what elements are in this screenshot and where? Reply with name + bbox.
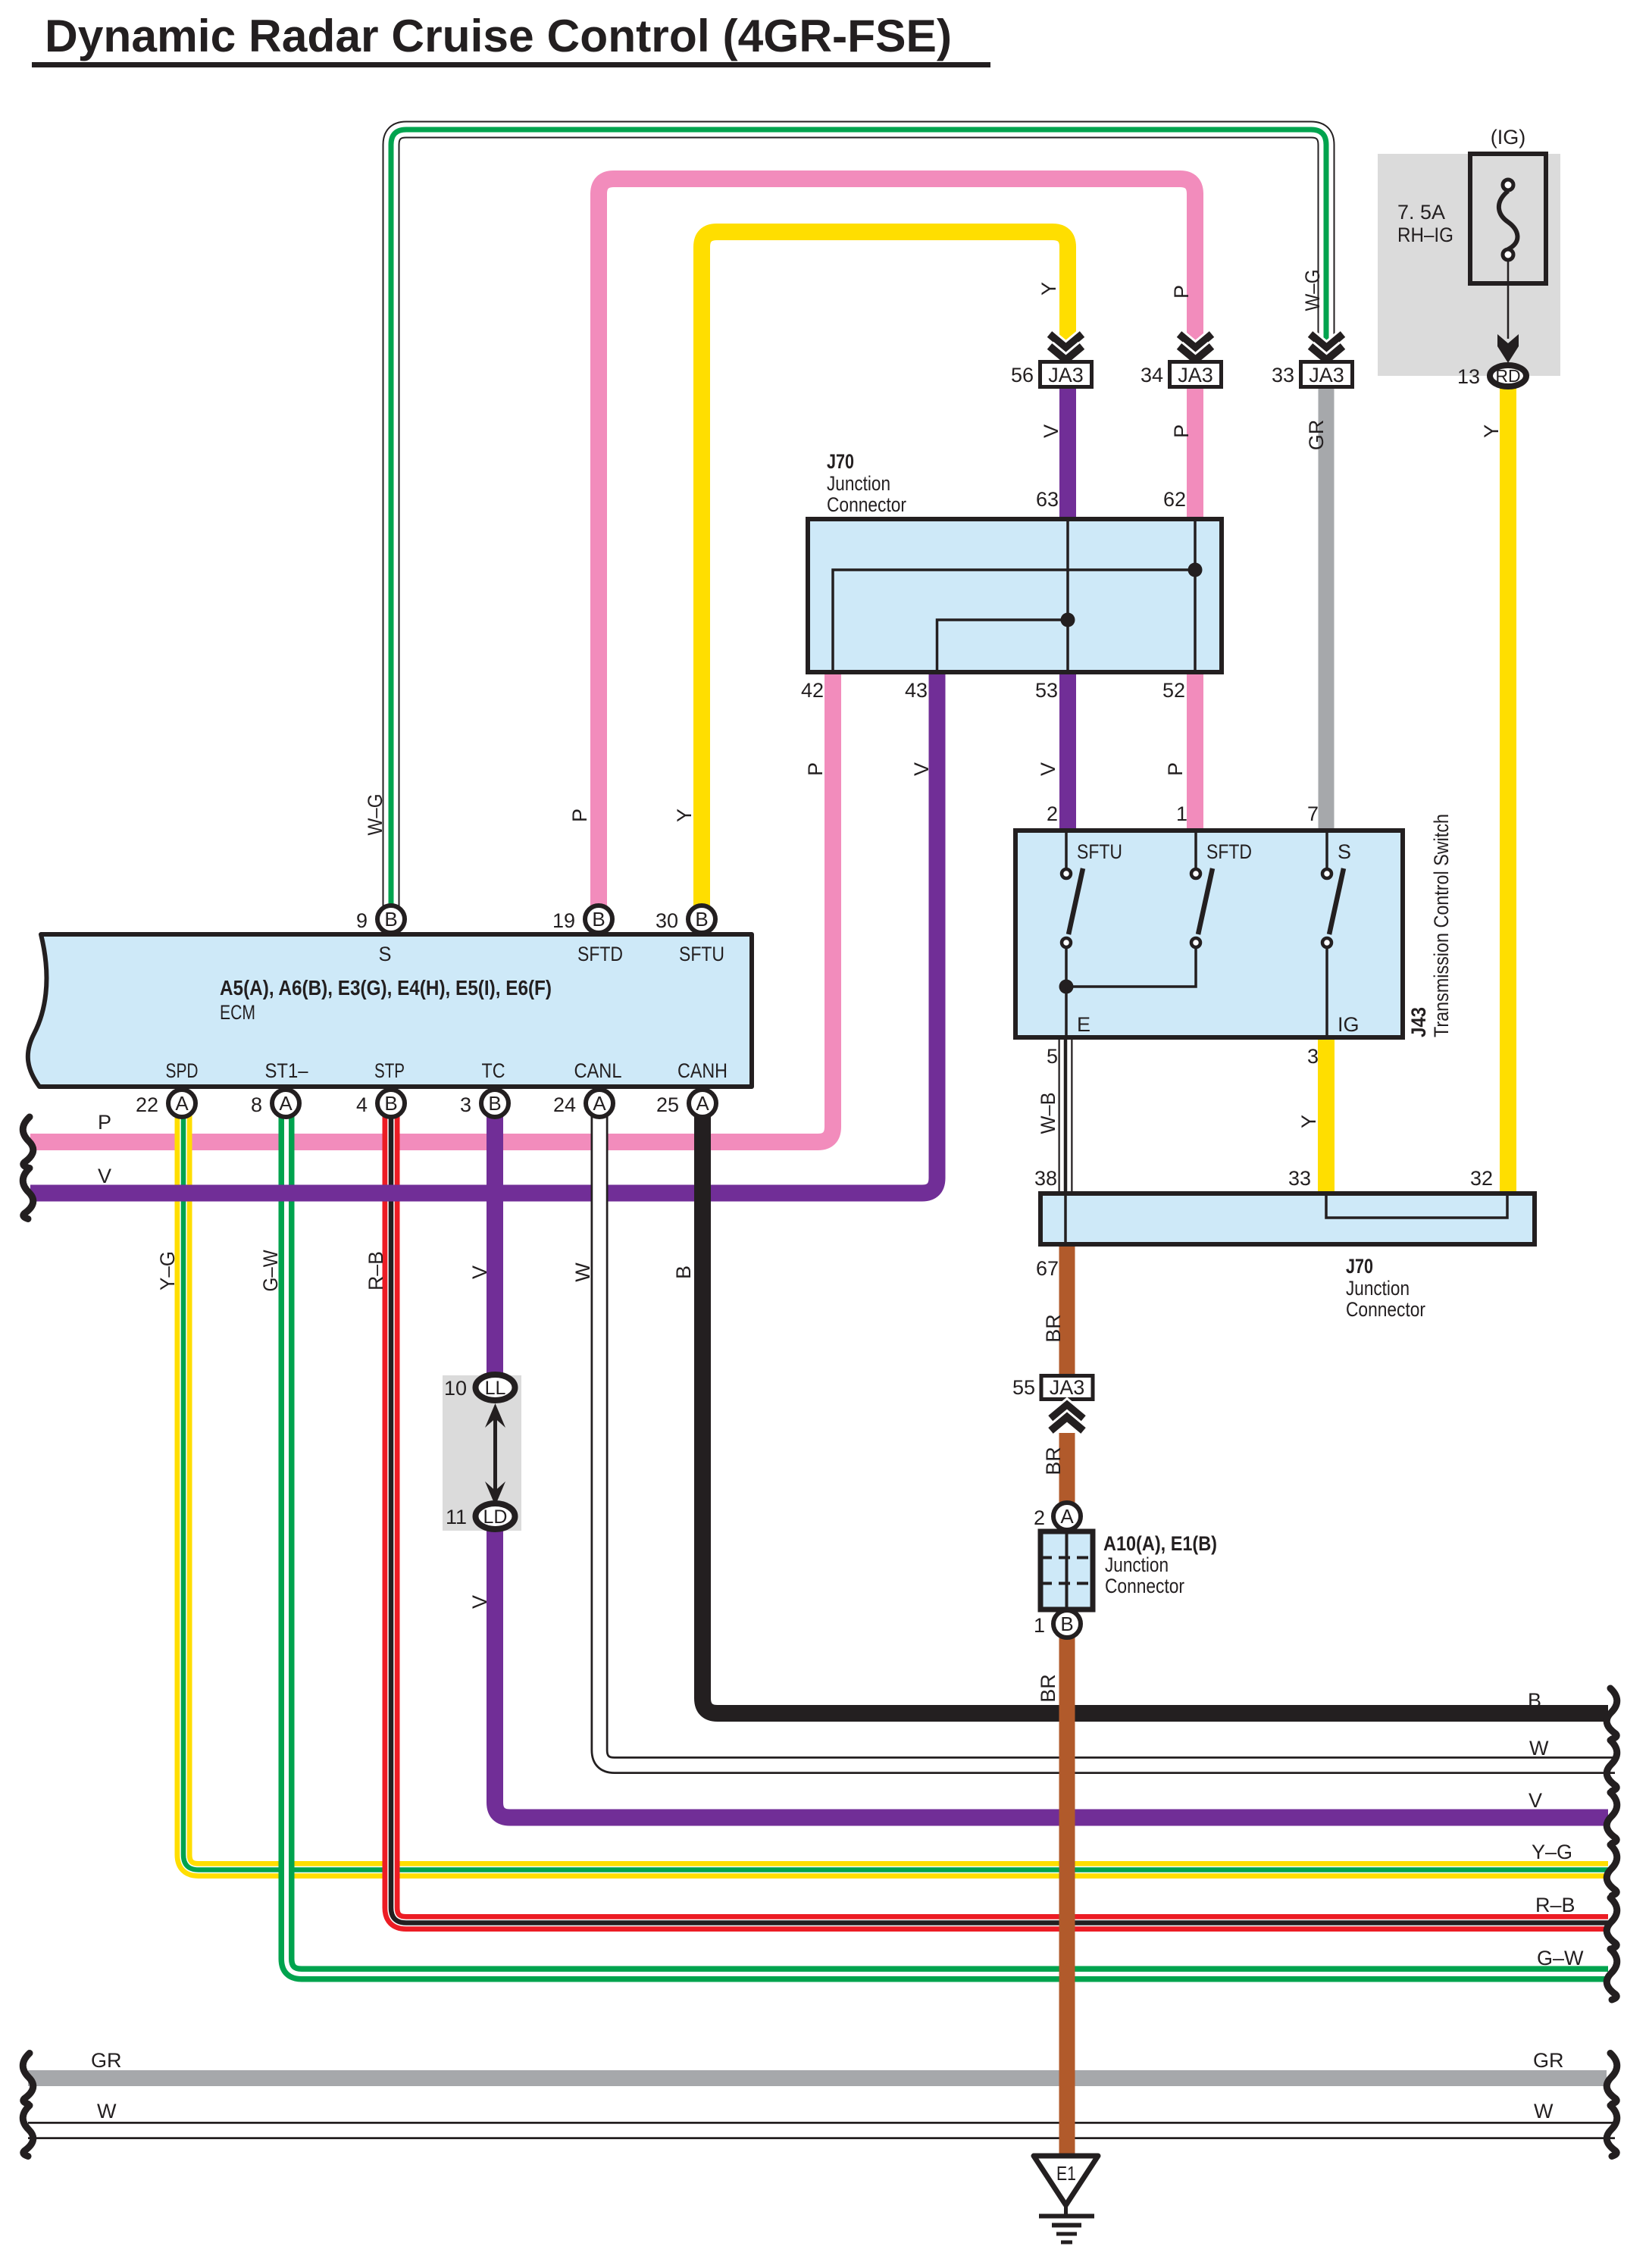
cut brace right GR xyxy=(1607,2054,1617,2104)
ECM pin 25 CANH xyxy=(656,1059,727,1117)
connector JA3 pin 33 xyxy=(1272,334,1353,387)
connector RD pin 13 xyxy=(1457,365,1526,388)
svg-text:JA3: JA3 xyxy=(1309,364,1344,386)
wire Y from fuse RD 13 to J70 pin 32 xyxy=(1500,388,1516,1193)
svg-text:3: 3 xyxy=(1307,1045,1319,1068)
svg-text:CANL: CANL xyxy=(574,1059,622,1082)
svg-text:63: 63 xyxy=(1036,488,1059,511)
svg-text:Y–G: Y–G xyxy=(1532,1841,1572,1863)
svg-text:GR: GR xyxy=(91,2049,122,2072)
wire P horizontal from left cut to J70 pin 42 xyxy=(30,674,833,1142)
svg-text:J70: J70 xyxy=(1346,1255,1373,1278)
wire W horizontal bottom pass-through xyxy=(28,2122,1615,2139)
ECM pin 22 SPD xyxy=(136,1059,199,1117)
svg-text:Junction: Junction xyxy=(827,472,890,495)
J70 junction node on 62-52 line xyxy=(1188,563,1203,577)
wire V from connector JA3 pin 56 to J70 pin 63 xyxy=(1059,389,1076,521)
svg-text:W: W xyxy=(97,2100,117,2123)
wire W-G from ECM pin 9 S to connector JA3 pin 33 xyxy=(391,130,1326,919)
svg-text:Transmission Control Switch: Transmission Control Switch xyxy=(1430,814,1453,1037)
wire B from ECM pin 25 CANH to right cut xyxy=(702,1093,1608,1713)
cut brace left GR xyxy=(23,2054,33,2104)
wire V horizontal from left cut to J70 pin 43 xyxy=(30,674,937,1193)
svg-text:Y: Y xyxy=(673,809,696,822)
svg-text:R–B: R–B xyxy=(1535,1894,1575,1916)
svg-text:A: A xyxy=(696,1092,709,1115)
svg-text:5: 5 xyxy=(1047,1045,1058,1068)
cut brace left P xyxy=(23,1117,33,1168)
connector JA3 pin 56 xyxy=(1011,334,1092,387)
svg-text:Dynamic Radar Cruise Control (: Dynamic Radar Cruise Control (4GR-FSE) xyxy=(45,11,952,61)
J70 internal link pin 63 to pin 53 xyxy=(1066,521,1069,670)
svg-text:38: 38 xyxy=(1034,1167,1057,1190)
svg-text:B: B xyxy=(1528,1689,1541,1712)
svg-text:25: 25 xyxy=(656,1093,679,1116)
svg-text:30: 30 xyxy=(656,909,678,932)
wire P from J70 pin 52 to J43 pin 1 SFTD xyxy=(1187,672,1203,830)
svg-text:ECM: ECM xyxy=(220,1001,255,1024)
svg-text:LL: LL xyxy=(485,1378,506,1399)
svg-text:E: E xyxy=(1077,1013,1090,1036)
svg-text:W–B: W–B xyxy=(1037,1093,1059,1134)
svg-text:Junction: Junction xyxy=(1346,1277,1410,1300)
svg-text:A: A xyxy=(1060,1505,1074,1528)
cut brace right G-W xyxy=(1607,1949,1617,2000)
svg-text:32: 32 xyxy=(1470,1167,1493,1190)
svg-text:3: 3 xyxy=(460,1093,471,1116)
svg-text:BR: BR xyxy=(1042,1314,1065,1343)
svg-text:E1: E1 xyxy=(1056,2162,1076,2185)
svg-text:IG: IG xyxy=(1338,1013,1360,1036)
svg-text:2: 2 xyxy=(1034,1506,1045,1529)
ECM pin 30 SFTU xyxy=(656,906,724,965)
svg-text:V: V xyxy=(1037,762,1059,776)
svg-text:19: 19 xyxy=(552,909,575,932)
svg-text:Y: Y xyxy=(1297,1115,1320,1128)
svg-text:8: 8 xyxy=(251,1093,262,1116)
svg-text:JA3: JA3 xyxy=(1048,364,1084,386)
svg-text:SFTU: SFTU xyxy=(1077,840,1122,863)
junction connector J70 upper xyxy=(808,450,1222,672)
svg-text:53: 53 xyxy=(1035,679,1058,702)
junction connector pin 2 A xyxy=(1034,1503,1081,1530)
svg-text:ST1–: ST1– xyxy=(265,1059,308,1082)
svg-text:W: W xyxy=(1534,2100,1554,2123)
wire BR from J70 pin 67 to connector JA3 pin 55 xyxy=(1059,1245,1075,1376)
svg-text:P: P xyxy=(1170,424,1193,438)
J43 switch SFTU xyxy=(1062,831,1083,987)
svg-text:B: B xyxy=(1060,1613,1073,1635)
svg-text:Y–G: Y–G xyxy=(156,1251,179,1290)
junction connector A10(A) E1(B) xyxy=(1040,1531,1217,1609)
svg-text:52: 52 xyxy=(1162,679,1185,702)
wire P from connector JA3 pin 34 to J70 pin 62 xyxy=(1187,389,1203,521)
svg-text:W: W xyxy=(571,1262,594,1282)
wire G-W from ECM pin 8 ST1- to right cut xyxy=(286,1093,1608,1974)
cut brace right B xyxy=(1607,1688,1617,1739)
svg-text:Connector: Connector xyxy=(1105,1575,1184,1597)
wire BR from connector JA3 pin 55 to junction connector A10 pin 2 xyxy=(1059,1433,1075,1505)
ECM pin 3 TC xyxy=(460,1059,508,1117)
svg-text:SFTU: SFTU xyxy=(679,943,724,965)
svg-text:J70: J70 xyxy=(827,450,854,473)
J70 internal link pin 43 to node on 63-53 xyxy=(937,620,1069,670)
svg-text:(IG): (IG) xyxy=(1491,126,1526,149)
connector JA3 pin 55 xyxy=(1012,1376,1093,1431)
svg-text:1: 1 xyxy=(1176,802,1187,825)
cut brace right Y-G xyxy=(1607,1845,1617,1896)
svg-text:V: V xyxy=(1529,1789,1542,1812)
svg-text:B: B xyxy=(672,1265,695,1279)
svg-text:33: 33 xyxy=(1288,1167,1311,1190)
svg-text:STP: STP xyxy=(374,1059,405,1082)
svg-text:33: 33 xyxy=(1272,364,1294,386)
cut brace right R-B xyxy=(1607,1898,1617,1949)
ECM pin 8 ST1- xyxy=(251,1059,308,1117)
svg-text:SFTD: SFTD xyxy=(1206,840,1252,863)
svg-text:B: B xyxy=(384,908,397,931)
svg-text:R–B: R–B xyxy=(365,1251,387,1290)
J70 lower internal link pin 33 to pin 32 xyxy=(1326,1196,1507,1218)
arrow link between LL and LD xyxy=(485,1403,505,1506)
svg-text:55: 55 xyxy=(1012,1376,1035,1399)
svg-text:67: 67 xyxy=(1036,1257,1059,1280)
wire V from ECM pin 3 TC down to connector LL xyxy=(487,1093,503,1376)
wire Y from ECM pin 30 SFTU to connector JA3 pin 56 xyxy=(702,232,1068,919)
wire GR from connector JA3 pin 33 to J43 pin 7 xyxy=(1319,389,1335,830)
svg-text:9: 9 xyxy=(356,909,368,932)
svg-text:P: P xyxy=(1170,285,1193,299)
svg-text:22: 22 xyxy=(136,1093,158,1116)
svg-text:TC: TC xyxy=(482,1059,505,1082)
svg-text:JA3: JA3 xyxy=(1050,1376,1085,1399)
wire Y from J43 pin 3 IG to J70 pin 33 xyxy=(1318,1038,1335,1193)
svg-text:W–G: W–G xyxy=(364,794,386,836)
svg-text:4: 4 xyxy=(356,1093,368,1116)
svg-text:BR: BR xyxy=(1042,1447,1065,1475)
cut brace left W xyxy=(23,2106,33,2157)
svg-text:GR: GR xyxy=(1305,420,1328,451)
junction connector pin 1 B xyxy=(1034,1610,1081,1638)
svg-text:BR: BR xyxy=(1037,1674,1059,1703)
svg-text:P: P xyxy=(568,809,591,822)
J43 junction node to pin E xyxy=(1059,980,1074,1038)
svg-text:Connector: Connector xyxy=(1346,1298,1425,1321)
svg-text:7. 5A: 7. 5A xyxy=(1397,201,1445,224)
svg-text:P: P xyxy=(98,1111,111,1134)
svg-text:W: W xyxy=(1529,1737,1549,1760)
svg-text:J43: J43 xyxy=(1407,1007,1430,1037)
svg-text:CANH: CANH xyxy=(677,1059,727,1082)
svg-text:B: B xyxy=(592,908,605,931)
svg-text:Y: Y xyxy=(1037,282,1060,296)
svg-text:43: 43 xyxy=(905,679,928,702)
svg-text:7: 7 xyxy=(1307,802,1319,825)
wire R-B from ECM pin 4 STP to right cut xyxy=(391,1093,1608,1923)
ECM xyxy=(28,934,752,1087)
wire V from connector LD to right cut xyxy=(495,1528,1608,1818)
svg-text:42: 42 xyxy=(801,679,824,702)
svg-text:Junction: Junction xyxy=(1105,1553,1169,1576)
svg-text:B: B xyxy=(488,1092,501,1115)
svg-text:V: V xyxy=(98,1165,111,1187)
cut brace right W xyxy=(1607,1741,1617,1791)
svg-text:1: 1 xyxy=(1034,1614,1045,1637)
svg-text:24: 24 xyxy=(553,1093,576,1116)
ECM pin 19 SFTD xyxy=(552,906,623,965)
svg-text:V: V xyxy=(468,1265,491,1279)
J70 internal link pin 42 to node on 62-52 xyxy=(833,570,1195,670)
title Dynamic Radar Cruise Control (4GR-FSE) xyxy=(32,11,990,67)
J70 lower internal through line pin 38 to pin 67 xyxy=(1064,1196,1067,1242)
fuse 7.5A RH-IG xyxy=(1397,126,1546,283)
wire W from ECM pin 24 CANL to right cut xyxy=(599,1093,1615,1766)
svg-text:13: 13 xyxy=(1457,365,1480,388)
svg-text:11: 11 xyxy=(446,1506,467,1528)
svg-text:62: 62 xyxy=(1163,488,1186,511)
connector LD pin 11 xyxy=(446,1503,515,1529)
svg-text:GR: GR xyxy=(1533,2049,1564,2072)
svg-text:S: S xyxy=(379,943,392,965)
connector JA3 pin 34 xyxy=(1141,334,1222,387)
switch J43 Transmission Control Switch xyxy=(1015,831,1403,1037)
fuse block background panel xyxy=(1378,154,1560,376)
svg-text:RH–IG: RH–IG xyxy=(1397,224,1453,246)
svg-text:P: P xyxy=(1164,762,1187,776)
svg-text:B: B xyxy=(695,908,708,931)
cut brace right V xyxy=(1607,1793,1617,1844)
svg-text:S: S xyxy=(1338,840,1351,863)
svg-text:SFTD: SFTD xyxy=(577,943,623,965)
wire W-B from J43 pin 5 E to J70 pin 38 xyxy=(1059,1038,1073,1193)
svg-text:Connector: Connector xyxy=(827,493,906,516)
svg-text:P: P xyxy=(804,762,827,776)
svg-text:34: 34 xyxy=(1141,364,1163,386)
connector LL pin 10 xyxy=(444,1375,515,1400)
svg-text:Y: Y xyxy=(1480,424,1503,438)
wire from fuse to connector RD 13 xyxy=(1497,260,1519,363)
J43 switch S xyxy=(1322,831,1344,1037)
svg-text:SPD: SPD xyxy=(166,1059,199,1082)
svg-text:V: V xyxy=(468,1595,491,1609)
svg-text:V: V xyxy=(910,762,933,776)
svg-text:V: V xyxy=(1040,424,1062,438)
ECM pin 9 S xyxy=(356,906,405,965)
svg-text:RD: RD xyxy=(1495,366,1520,386)
wire GR horizontal bottom pass-through xyxy=(28,2070,1607,2086)
wire P from ECM pin 19 SFTD to connector JA3 pin 34 xyxy=(599,179,1195,919)
svg-text:JA3: JA3 xyxy=(1178,364,1213,386)
cut brace right W xyxy=(1607,2106,1617,2157)
junction connector J70 lower xyxy=(1040,1193,1535,1321)
cut brace left V xyxy=(23,1168,33,1219)
svg-text:A10(A), E1(B): A10(A), E1(B) xyxy=(1103,1532,1217,1555)
J43 switch SFTD xyxy=(1066,831,1212,987)
svg-text:G–W: G–W xyxy=(259,1250,282,1291)
svg-text:A: A xyxy=(175,1092,189,1115)
svg-text:56: 56 xyxy=(1011,364,1034,386)
ECM pin 24 CANL xyxy=(553,1059,622,1117)
J70 internal link pin 62 to pin 52 xyxy=(1194,521,1197,670)
ground E1 xyxy=(1034,2156,1098,2242)
wire Y-G from ECM pin 22 SPD to right cut xyxy=(183,1093,1608,1870)
svg-text:2: 2 xyxy=(1047,802,1058,825)
ECM pin 4 STP xyxy=(356,1059,405,1117)
wire V from J70 pin 53 to J43 pin 2 SFTU xyxy=(1059,672,1076,830)
svg-text:W–G: W–G xyxy=(1301,270,1324,311)
svg-text:10: 10 xyxy=(444,1377,467,1400)
svg-text:A: A xyxy=(279,1092,293,1115)
svg-text:A5(A), A6(B), E3(G), E4(H), E5: A5(A), A6(B), E3(G), E4(H), E5(I), E6(F) xyxy=(220,976,552,999)
svg-text:LD: LD xyxy=(483,1506,508,1528)
svg-text:B: B xyxy=(384,1092,397,1115)
connector LL/LD background panel xyxy=(443,1375,521,1531)
J70 junction node on 63-53 line xyxy=(1061,613,1075,627)
wire BR from junction connector E1 pin 1 to ground E1 xyxy=(1059,1636,1075,2156)
svg-text:G–W: G–W xyxy=(1537,1947,1584,1969)
svg-text:A: A xyxy=(593,1092,606,1115)
